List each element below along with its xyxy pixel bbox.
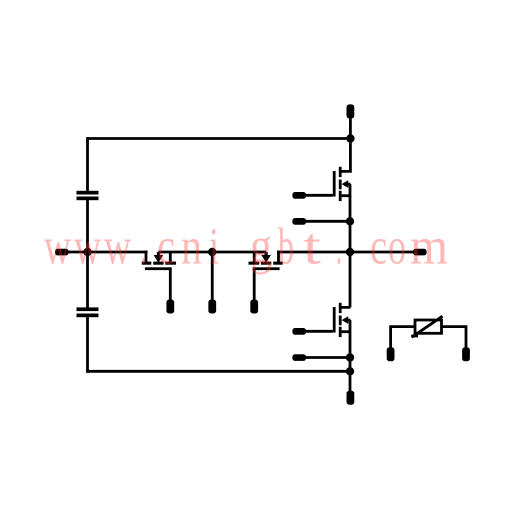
wire left rail lower segment (86, 317, 89, 373)
MOSFET Q2 channel segment bottom (339, 327, 342, 337)
wire mid rail center segment (158, 251, 266, 254)
sensor M2 channel bar left (249, 262, 260, 265)
capacitor C2 plate bottom (77, 314, 99, 318)
wire gate lead Q2 (306, 330, 333, 333)
wire kelvin lead Q2 (306, 356, 351, 359)
svg-text:t: t (303, 219, 322, 276)
terminal pin sensor M2 gate (250, 300, 258, 314)
junction dot center tap (208, 248, 216, 256)
svg-text:i: i (209, 219, 219, 276)
terminal pin AC left (55, 249, 69, 256)
MOSFET Q2 body arrow (342, 316, 349, 324)
terminal pin gate Q1 (292, 192, 306, 199)
wire arrow stub sensor M1 (157, 252, 160, 257)
MOSFET Q1 gate bar (333, 171, 336, 197)
sensor M2 body arrow (261, 255, 271, 263)
terminal pin sensor M1 gate (166, 300, 174, 314)
sensor M2 channel bar mid (261, 262, 271, 265)
thermistor RT body (415, 320, 442, 333)
svg-text:w: w (74, 219, 101, 276)
wire center tap down (211, 252, 214, 301)
junction dot mid rail left (83, 248, 91, 256)
wire bottom rail DC- (86, 370, 350, 373)
svg-text:g: g (250, 219, 272, 276)
wire left rail upper segment (86, 137, 89, 191)
wire arrow stub sensor M2 (265, 252, 268, 257)
terminal pin gate Q2 (292, 328, 306, 335)
wire arrow line Q2 (347, 319, 351, 322)
wire left rail middle segment (86, 200, 89, 308)
MOSFET Q2 gate bar (333, 307, 336, 333)
wire arrow line Q1 (347, 183, 351, 186)
capacitor C1 plate top (77, 191, 99, 195)
wire top rail DC+ (88, 137, 351, 140)
wire mid rail right segment (277, 251, 414, 254)
MOSFET Q2 channel segment top (339, 303, 342, 313)
svg-text:c: c (157, 219, 175, 276)
svg-text:b: b (278, 219, 294, 276)
wire mid rail left segment (69, 251, 148, 254)
wire source Q2 down to terminal (349, 320, 352, 391)
sensor M1 channel bar left (142, 262, 152, 265)
wire source Q1 to drain Q2 (340, 184, 350, 307)
svg-text:n: n (181, 219, 202, 276)
wire source bend sensor M2 (253, 252, 256, 263)
MOSFET Q1 channel segment top (339, 167, 342, 177)
terminal pin DC- bottom (347, 391, 355, 405)
sensor M1 channel bar right (165, 262, 176, 265)
svg-text:c: c (370, 219, 387, 276)
wire gate lead sensor M1 (169, 270, 172, 301)
terminal pin kelvin Q2 (292, 354, 306, 361)
junction dot top rail (346, 134, 354, 142)
wire source connect Q2 (342, 330, 350, 333)
terminal pin thermistor right (462, 347, 470, 361)
wire drain bend sensor M1 (145, 251, 148, 263)
wire gate lead sensor M2 (253, 270, 256, 301)
watermark www.cnigbt.com (44, 219, 448, 276)
terminal pin AC right (413, 249, 427, 256)
junction dot mid rail right (346, 248, 354, 256)
sensor M2 gate bar (253, 267, 280, 270)
terminal pin kelvin Q1 (292, 218, 306, 225)
wire gate lead Q1 (306, 194, 333, 197)
svg-text:w: w (44, 219, 71, 276)
junction dot kelvin Q1 (346, 217, 354, 225)
MOSFET Q2 channel segment mid (339, 316, 342, 326)
sensor M1 body arrow (154, 255, 164, 263)
MOSFET Q1 channel segment mid (339, 180, 342, 190)
wire drain bend sensor M2 (277, 251, 280, 263)
sensor M1 channel bar mid (153, 262, 163, 265)
svg-text:w: w (104, 219, 131, 276)
svg-text:.: . (140, 219, 147, 276)
junction dot kelvin Q2 (346, 353, 354, 361)
svg-text:o: o (388, 219, 406, 276)
junction dot bottom rail (346, 367, 354, 375)
terminal pin DC+ top (347, 104, 355, 118)
svg-text:m: m (410, 219, 448, 276)
terminal pin thermistor left (387, 347, 395, 361)
thermistor RT diagonal (412, 316, 443, 337)
terminal pin center tap (208, 300, 216, 314)
sensor M2 channel bar right (273, 262, 283, 265)
capacitor C2 plate top (77, 307, 99, 311)
wire kelvin lead Q1 (306, 220, 351, 223)
MOSFET Q1 channel segment bottom (339, 191, 342, 201)
svg-text:.: . (336, 219, 342, 276)
capacitor C1 plate bottom (77, 197, 99, 201)
thermistor RT foot (411, 335, 418, 338)
wire source bend sensor M1 (169, 252, 172, 263)
wire source connect Q1 (342, 194, 350, 197)
wire thermistor left lead (391, 327, 416, 349)
sensor M1 gate bar (145, 267, 172, 270)
wire drain stub Q1 top (340, 118, 350, 172)
wire thermistor right lead (441, 327, 466, 349)
MOSFET Q1 body arrow (342, 180, 349, 188)
